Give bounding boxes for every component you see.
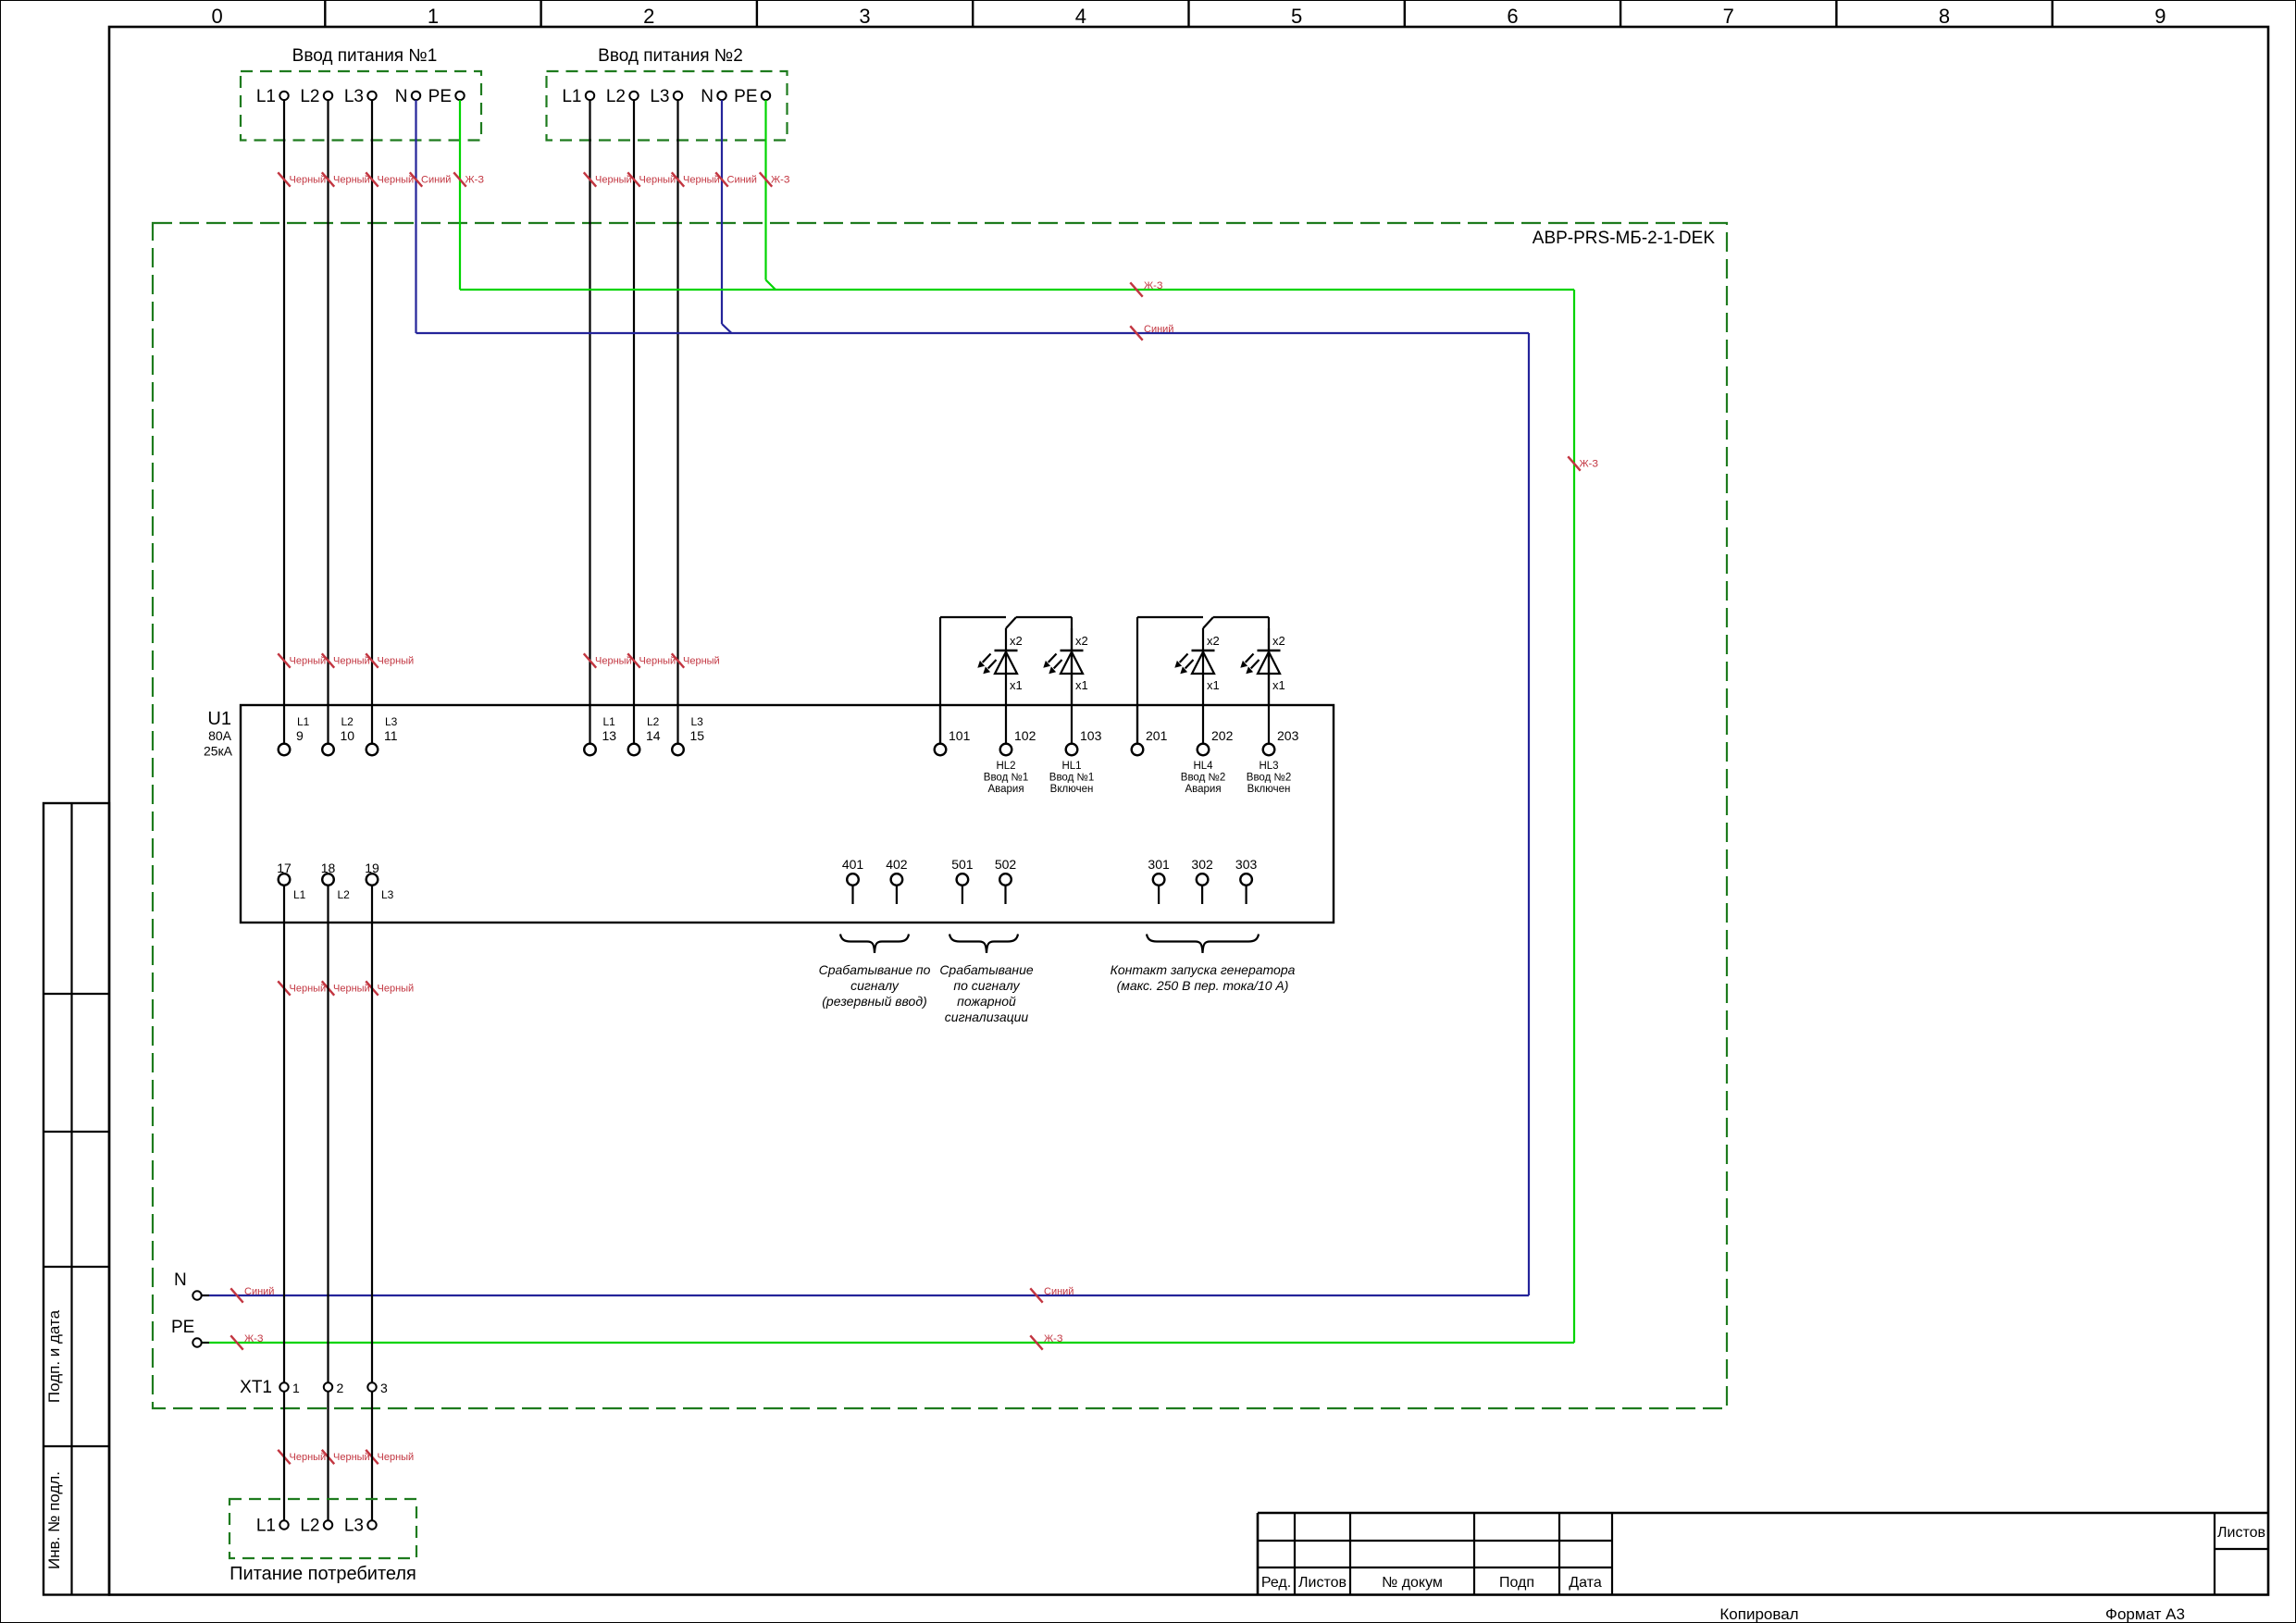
U1 pin 101 [935, 705, 971, 755]
svg-text:Черный: Черный [290, 175, 327, 186]
svg-text:HL2: HL2 [996, 761, 1015, 772]
svg-text:13: 13 [602, 728, 617, 743]
U1 pin 102 [1000, 705, 1036, 755]
svg-text:402: 402 [886, 857, 908, 872]
svg-text:Черный: Черный [639, 175, 676, 186]
U1 pin 201 [1132, 705, 1168, 755]
wire output phase x=307 [283, 923, 285, 1520]
U1 pin 202 [1198, 705, 1234, 755]
LED HL4 [1174, 628, 1219, 705]
wire label feed1 PE top [453, 172, 484, 186]
svg-text:HL4: HL4 [1193, 761, 1213, 772]
svg-text:2: 2 [337, 1381, 344, 1395]
wire label feed2 L3 top [672, 172, 720, 186]
wire label out L2 upper [322, 981, 370, 995]
LED HL3 [1240, 628, 1285, 705]
svg-text:302: 302 [1191, 857, 1213, 872]
svg-text:6: 6 [1507, 5, 1518, 28]
svg-text:L1: L1 [603, 715, 616, 728]
svg-text:HL3: HL3 [1259, 761, 1278, 772]
svg-text:15: 15 [690, 728, 705, 743]
svg-text:L1: L1 [562, 87, 581, 106]
wire L (black) x=402 feed1 to U1 [371, 100, 373, 705]
LED HL2 [977, 628, 1022, 705]
svg-text:25кА: 25кА [204, 744, 233, 759]
svg-text:по сигналу: по сигналу [953, 978, 1020, 993]
wire label out L2 lower [322, 1450, 370, 1464]
svg-text:Ж-З: Ж-З [465, 175, 485, 186]
svg-text:АВР-PRS-МБ-2-1-DEK: АВР-PRS-МБ-2-1-DEK [1533, 229, 1716, 248]
svg-text:N: N [174, 1270, 187, 1290]
wire output phase x=402 [371, 923, 373, 1520]
svg-text:Черный: Черный [639, 656, 676, 667]
consumer dashed box [230, 1499, 416, 1558]
wire label PE bottom mid [1030, 1333, 1063, 1350]
svg-text:Включен: Включен [1247, 784, 1291, 795]
wire: bus segment [940, 616, 1006, 618]
wire label U1 pin10 [322, 653, 370, 667]
svg-text:Авария: Авария [987, 784, 1024, 795]
svg-text:x2: x2 [1272, 634, 1285, 648]
svg-text:XT1: XT1 [240, 1378, 272, 1397]
svg-text:L3: L3 [385, 715, 398, 728]
svg-text:Ввод питания №1: Ввод питания №1 [292, 46, 438, 66]
wire L (black) x=307 feed1 to U1 [283, 100, 285, 705]
wire label N bottom mid [1030, 1286, 1074, 1303]
svg-text:Черный: Черный [378, 175, 415, 186]
wire L (black) x=685 feed2 to U1 [633, 100, 635, 705]
svg-text:10: 10 [341, 728, 355, 743]
svg-text:0: 0 [212, 5, 223, 28]
input feed 1 terminals [256, 87, 465, 106]
wire L (black) x=732.5 feed2 to U1 [676, 100, 678, 705]
svg-text:3: 3 [380, 1381, 388, 1395]
svg-text:Синий: Синий [727, 175, 757, 186]
svg-text:501: 501 [951, 857, 974, 872]
U1 pin 14 (L2) [628, 705, 661, 755]
svg-text:Черный: Черный [378, 1452, 415, 1463]
svg-text:8: 8 [1939, 5, 1950, 28]
svg-text:Черный: Черный [290, 1452, 327, 1463]
svg-text:Ж-З: Ж-З [1044, 1333, 1063, 1344]
svg-text:L2: L2 [300, 1517, 319, 1536]
input feed block 2 dashed box [547, 71, 788, 141]
svg-text:Ред.: Ред. [1261, 1575, 1291, 1591]
svg-text:Листов: Листов [2217, 1525, 2265, 1541]
wire N feed2 (blue) join [722, 100, 732, 333]
svg-text:Ж-З: Ж-З [244, 1333, 264, 1344]
svg-text:3: 3 [859, 5, 870, 28]
wire label U1 pin11 [366, 653, 414, 667]
wire label feed2 L1 top [584, 172, 632, 186]
svg-text:1: 1 [428, 5, 439, 28]
svg-text:303: 303 [1235, 857, 1258, 872]
svg-text:Черный: Черный [290, 656, 327, 667]
svg-text:Черный: Черный [595, 656, 632, 667]
U1 pin 18 (L2) [321, 861, 350, 923]
wire: bus segment 2 [1016, 616, 1072, 618]
svg-text:Синий: Синий [1144, 324, 1173, 335]
U1 designator [204, 709, 233, 759]
svg-text:301: 301 [1148, 857, 1170, 872]
main cabinet dashed box АВР-PRS-МБ-2-1-DEK [153, 223, 1727, 1408]
svg-text:L3: L3 [381, 888, 394, 901]
wire label U1 pin13 [584, 653, 632, 667]
svg-text:401: 401 [842, 857, 864, 872]
svg-text:14: 14 [646, 728, 661, 743]
svg-text:Подп. и дата: Подп. и дата [45, 1309, 63, 1403]
svg-text:Срабатывание по: Срабатывание по [819, 962, 931, 977]
svg-text:сигналу: сигналу [850, 978, 900, 993]
wire label feed2 PE top [760, 172, 790, 186]
lamp label HL1 [1049, 761, 1094, 795]
svg-text:Ввод питания №2: Ввод питания №2 [598, 46, 743, 66]
U1 pin 402 [886, 857, 908, 904]
svg-text:Ввод №1: Ввод №1 [984, 773, 1028, 784]
svg-text:Синий: Синий [244, 1286, 274, 1297]
wire label PE riser right [1568, 456, 1598, 470]
svg-text:x1: x1 [1207, 678, 1220, 692]
svg-text:x2: x2 [1207, 634, 1220, 648]
svg-text:Черный: Черный [378, 984, 415, 995]
svg-text:PE: PE [171, 1318, 194, 1337]
svg-text:L1: L1 [256, 87, 276, 106]
wire label out L3 lower [366, 1450, 414, 1464]
input feed block 1 dashed box [241, 71, 481, 141]
wire L (black) x=637.5 feed2 to U1 [589, 100, 590, 705]
N terminal [174, 1270, 209, 1300]
title block texts [1261, 1525, 2265, 1591]
svg-text:101: 101 [949, 728, 971, 743]
svg-text:Дата: Дата [1569, 1575, 1602, 1591]
U1 pin 301 [1148, 857, 1170, 904]
column ruler ticks [325, 0, 2052, 27]
wire label feed1 N top [410, 172, 452, 186]
U1 pin 10 (L2) [322, 705, 354, 755]
U1 pin 103 [1066, 705, 1102, 755]
svg-text:Ж-З: Ж-З [1144, 280, 1163, 291]
svg-text:(резервный ввод): (резервный ввод) [822, 994, 926, 1009]
svg-text:L2: L2 [606, 87, 626, 106]
LED HL1 riser [1071, 617, 1073, 705]
svg-text:7: 7 [1723, 5, 1734, 28]
wire label feed1 L2 top [322, 172, 370, 186]
svg-text:Ввод №2: Ввод №2 [1181, 773, 1225, 784]
wire label U1 pin9 [278, 653, 326, 667]
svg-text:Питание потребителя: Питание потребителя [230, 1564, 416, 1584]
column ruler numbers [212, 5, 2166, 28]
XT1 terminal strip [240, 1378, 388, 1397]
svg-text:Черный: Черный [378, 656, 415, 667]
LED HL3 riser [1268, 617, 1270, 705]
PE terminal [171, 1318, 209, 1347]
svg-text:Черный: Черный [290, 984, 327, 995]
svg-text:L3: L3 [344, 1517, 364, 1536]
wire label feed1 L1 top [278, 172, 326, 186]
svg-text:L3: L3 [344, 87, 364, 106]
device U1 box [241, 705, 1334, 923]
svg-text:Черный: Черный [333, 984, 370, 995]
wire: riser 1229 to bus [1136, 617, 1138, 744]
svg-text:11: 11 [384, 728, 398, 743]
svg-text:L1: L1 [297, 715, 310, 728]
svg-text:Копировал: Копировал [1719, 1605, 1798, 1623]
svg-text:102: 102 [1014, 728, 1036, 743]
svg-text:N: N [701, 87, 714, 106]
svg-text:202: 202 [1211, 728, 1234, 743]
wire label out L1 upper [278, 981, 326, 995]
svg-text:2: 2 [643, 5, 654, 28]
wire label N bottom left [230, 1286, 274, 1303]
U1 pin 19 (L3) [365, 861, 393, 923]
svg-text:Синий: Синий [1044, 1286, 1074, 1297]
svg-text:L2: L2 [338, 888, 351, 901]
lamp label HL2 [984, 761, 1028, 795]
wire label N bus top [1130, 324, 1173, 341]
svg-text:L3: L3 [650, 87, 669, 106]
wire label feed1 L3 top [366, 172, 414, 186]
wire: contact diagonal at 1300 [1203, 617, 1213, 628]
svg-text:103: 103 [1080, 728, 1102, 743]
svg-text:(макс. 250 В пер. тока/10 А): (макс. 250 В пер. тока/10 А) [1117, 978, 1289, 993]
svg-text:Ж-З: Ж-З [771, 175, 790, 186]
wire: bus segment [1137, 616, 1203, 618]
wire PE feed2 (green) join [766, 100, 776, 290]
svg-text:Черный: Черный [333, 656, 370, 667]
svg-text:L2: L2 [647, 715, 660, 728]
svg-text:N: N [395, 87, 408, 106]
wire label out L1 lower [278, 1450, 326, 1464]
svg-text:L1: L1 [256, 1517, 276, 1536]
svg-text:Черный: Черный [333, 175, 370, 186]
svg-text:Подп: Подп [1499, 1575, 1534, 1591]
svg-text:203: 203 [1277, 728, 1299, 743]
wire: contact diagonal at 1087 [1006, 617, 1016, 628]
U1 pin 502 [995, 857, 1017, 904]
title block table [1258, 1513, 2268, 1595]
U1 pin 401 [842, 857, 864, 904]
wire PE feed1 (green): down, right, down, left to PE terminal [202, 100, 1574, 1343]
svg-text:5: 5 [1291, 5, 1302, 28]
wire label feed2 N top [715, 172, 757, 186]
svg-text:Черный: Черный [333, 1452, 370, 1463]
wire label out L3 upper [366, 981, 414, 995]
svg-text:Листов: Листов [1298, 1575, 1347, 1591]
U1 pin 11 (L3) [366, 705, 398, 755]
svg-text:9: 9 [296, 728, 304, 743]
brace: reserve input signal [840, 935, 909, 954]
U1 pin 501 [951, 857, 974, 904]
wire: riser 1016 to bus [939, 617, 941, 744]
svg-text:HL1: HL1 [1061, 761, 1081, 772]
U1 pin 17 (L1) [277, 861, 305, 923]
lamp label HL4 [1181, 761, 1225, 795]
svg-text:Ввод №1: Ввод №1 [1049, 773, 1094, 784]
U1 pin 13 (L1) [584, 705, 616, 755]
svg-text:L3: L3 [691, 715, 704, 728]
svg-text:Черный: Черный [683, 175, 720, 186]
svg-text:x1: x1 [1075, 678, 1088, 692]
svg-text:U1: U1 [207, 709, 231, 729]
svg-text:L2: L2 [300, 87, 319, 106]
lamp label HL3 [1247, 761, 1291, 795]
svg-text:x2: x2 [1010, 634, 1023, 648]
svg-text:№ докум: № докум [1382, 1575, 1443, 1591]
svg-text:PE: PE [734, 87, 757, 106]
svg-text:Авария: Авария [1185, 784, 1221, 795]
wire label U1 pin14 [627, 653, 676, 667]
svg-text:PE: PE [428, 87, 452, 106]
svg-text:Ж-З: Ж-З [1580, 459, 1599, 470]
input feed 2 terminals [562, 87, 770, 106]
svg-text:9: 9 [2154, 5, 2166, 28]
svg-text:1: 1 [292, 1381, 300, 1395]
svg-text:Формат А3: Формат А3 [2105, 1605, 2185, 1623]
wire output phase x=354.5 [327, 923, 329, 1520]
svg-text:Контакт запуска генератора: Контакт запуска генератора [1111, 962, 1296, 977]
U1 pin 302 [1191, 857, 1213, 904]
svg-text:Синий: Синий [421, 175, 451, 186]
brace: generator start contact [1147, 935, 1259, 954]
svg-text:Срабатывание: Срабатывание [939, 962, 1034, 977]
svg-text:Черный: Черный [595, 175, 632, 186]
svg-text:4: 4 [1075, 5, 1086, 28]
svg-text:502: 502 [995, 857, 1017, 872]
svg-text:201: 201 [1146, 728, 1168, 743]
svg-text:80А: 80А [208, 728, 232, 743]
svg-text:Черный: Черный [683, 656, 720, 667]
wire L (black) x=354.5 feed1 to U1 [327, 100, 329, 705]
wire: bus segment 2 [1213, 616, 1269, 618]
left margin stamp table [43, 803, 109, 1595]
svg-text:x1: x1 [1010, 678, 1023, 692]
wire label PE bus top [1130, 280, 1163, 297]
brace: fire alarm signal [949, 935, 1018, 954]
U1 pin 9 (L1) [279, 705, 310, 755]
LED HL1 [1043, 628, 1087, 705]
wire label U1 pin15 [672, 653, 720, 667]
wire N feed1 (blue): down, right, down, left to N terminal [202, 100, 1529, 1295]
svg-text:L1: L1 [293, 888, 306, 901]
svg-text:L2: L2 [341, 715, 354, 728]
svg-text:пожарной: пожарной [957, 994, 1016, 1009]
wire label PE bottom left [230, 1333, 264, 1350]
U1 pin 203 [1263, 705, 1299, 755]
svg-text:Инв. № подл.: Инв. № подл. [45, 1471, 63, 1569]
svg-text:Включен: Включен [1050, 784, 1094, 795]
U1 pin 15 (L3) [672, 705, 704, 755]
svg-text:Ввод №2: Ввод №2 [1247, 773, 1291, 784]
U1 pin 303 [1235, 857, 1258, 904]
svg-text:сигнализации: сигнализации [945, 1010, 1029, 1024]
svg-text:x1: x1 [1272, 678, 1285, 692]
wire label feed2 L2 top [627, 172, 676, 186]
consumer terminals [256, 1517, 377, 1536]
svg-text:x2: x2 [1075, 634, 1088, 648]
